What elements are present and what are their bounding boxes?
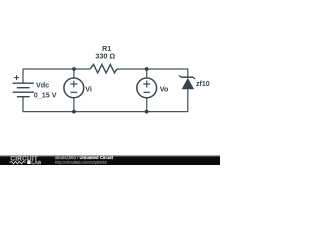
source Vi plus sign bbox=[70, 81, 77, 88]
battery V1 Vdc plates bbox=[13, 83, 34, 97]
svg-text:Vi: Vi bbox=[85, 84, 92, 93]
source Vo minus sign bbox=[143, 91, 150, 93]
footer logo LAB block bbox=[27, 161, 30, 164]
svg-text:Vo: Vo bbox=[160, 84, 169, 93]
source V2 circle Vi bbox=[64, 78, 84, 98]
wire Vo stub bottom bbox=[146, 98, 148, 112]
zener diode left wing bbox=[179, 75, 181, 77]
zener diode right wing bbox=[193, 77, 195, 79]
svg-text:zf10: zf10 bbox=[196, 81, 210, 88]
zener diode triangle bbox=[182, 78, 194, 89]
resistor R1 zigzag bbox=[90, 64, 117, 73]
svg-text:http://circuitlab.com/c/q2kb62: http://circuitlab.com/c/q2kb62 bbox=[55, 159, 108, 164]
wire Vo stub top bbox=[146, 69, 148, 78]
footer logo squiggle bbox=[10, 161, 26, 163]
source Vi minus sign bbox=[71, 91, 78, 93]
svg-text:LAB: LAB bbox=[31, 160, 41, 165]
node junction dot Vo bottom bbox=[145, 110, 149, 114]
source Vo plus sign bbox=[143, 81, 150, 88]
wire left+top-left segment bbox=[23, 69, 90, 83]
node junction dot Vi top bbox=[72, 67, 76, 71]
node junction dot Vi bottom bbox=[72, 110, 76, 114]
zener diode D1 cathode bar bbox=[181, 76, 193, 78]
battery plus polarity mark bbox=[14, 75, 19, 80]
svg-text:330 Ω: 330 Ω bbox=[95, 52, 115, 61]
svg-text:Vdc: Vdc bbox=[36, 81, 49, 90]
wire top-right segment + right side down to zener bbox=[117, 69, 188, 77]
node junction dot Vo top bbox=[145, 67, 149, 71]
wire Vi stub top bbox=[73, 69, 75, 78]
wire bottom route bbox=[23, 89, 188, 111]
svg-text:0_15 V: 0_15 V bbox=[34, 90, 57, 99]
wire Vi stub bottom bbox=[73, 98, 75, 112]
source V3 circle Vo bbox=[137, 78, 157, 98]
footer bar background bbox=[0, 157, 220, 165]
